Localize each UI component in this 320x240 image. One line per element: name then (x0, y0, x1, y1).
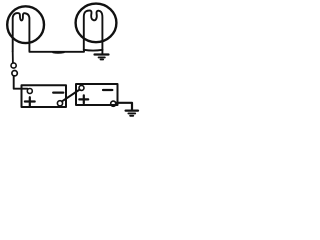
ground below lamp L2 (95, 50, 109, 60)
wire lamp L1 to switch (12, 52, 14, 63)
wire battery B2 to ground (116, 103, 132, 110)
wire lamp L1 to lamp L2 (29, 50, 84, 52)
wire battery B1 to battery B2 (62, 90, 80, 102)
lamp L2 (76, 4, 117, 51)
lamp L1 (7, 6, 44, 51)
wire switch to battery B1 (14, 76, 28, 89)
battery B1 (22, 85, 67, 107)
switch S1 (11, 63, 17, 76)
battery B2 (76, 84, 118, 106)
ground bottom right (126, 111, 138, 116)
